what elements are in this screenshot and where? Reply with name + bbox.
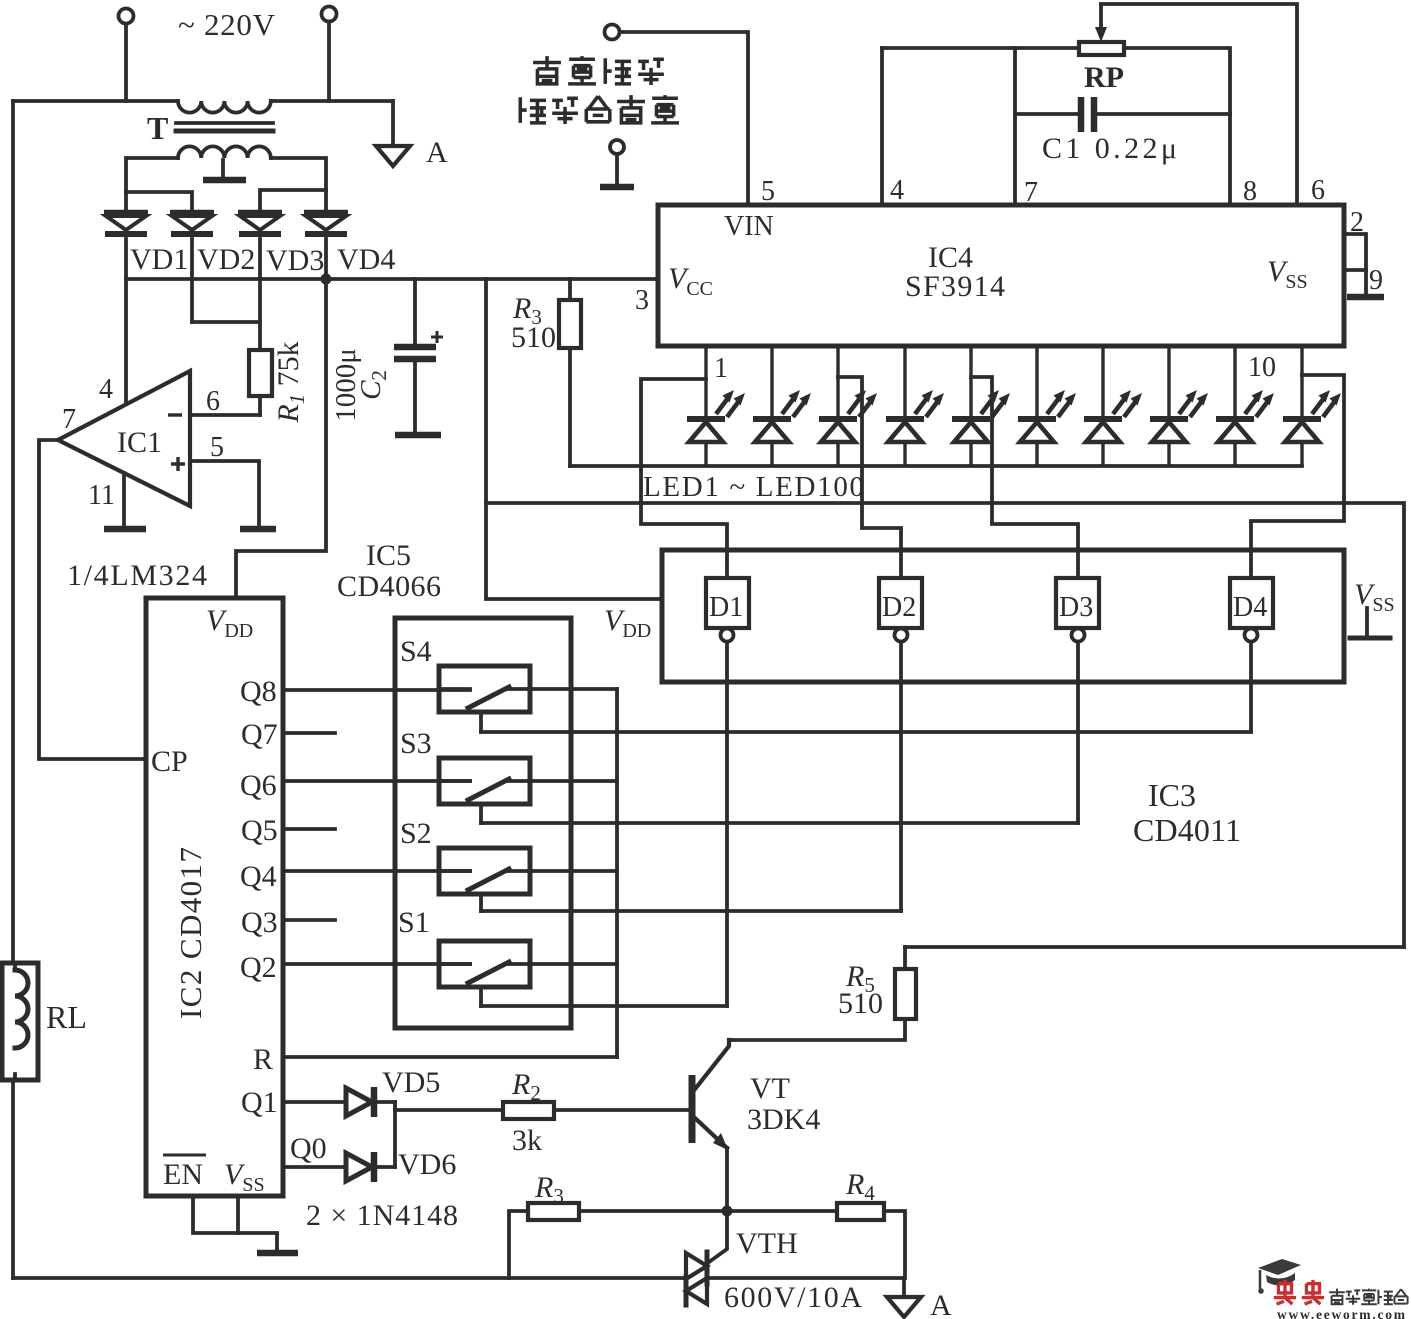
- wire secondary left: [126, 158, 178, 213]
- diode VD6: [346, 1153, 372, 1181]
- wire IC1 output to CP: [39, 440, 146, 759]
- svg-text:D4: D4: [1233, 592, 1267, 623]
- wire left rail lower: [11, 1080, 15, 1278]
- IC2 CD4017 box: [146, 598, 283, 1196]
- inductor RL: [2, 963, 38, 1080]
- svg-text:Q6: Q6: [240, 769, 277, 802]
- svg-text:510: 510: [511, 321, 556, 354]
- gate D1: [706, 578, 749, 628]
- svg-text:1000μ: 1000μ: [330, 348, 362, 422]
- wire LED anode bus: [570, 464, 1302, 468]
- LED LED3: [819, 344, 877, 466]
- pin 4 wire: [880, 48, 884, 205]
- ground pin11: [104, 526, 146, 533]
- svg-text:Q8: Q8: [240, 675, 277, 708]
- wire: [327, 22, 331, 101]
- svg-text:Q7: Q7: [241, 718, 278, 751]
- svg-text:CD4011: CD4011: [1133, 812, 1241, 848]
- svg-text:LED1 ~ LED100: LED1 ~ LED100: [643, 471, 864, 503]
- wire RP to pin 8: [1124, 48, 1230, 205]
- VSS tick: [1365, 608, 1369, 636]
- LED LED5: [952, 344, 1010, 466]
- wire S2 control to D2: [481, 909, 901, 913]
- svg-text:Q4: Q4: [240, 860, 277, 893]
- wire secondary jog to VD2: [126, 192, 192, 213]
- svg-text:SF3914: SF3914: [905, 270, 1005, 303]
- diode VD3: [238, 213, 282, 234]
- diode VD5: [346, 1088, 372, 1116]
- svg-text:2 × 1N4148: 2 × 1N4148: [306, 1199, 458, 1232]
- svg-text:11: 11: [88, 480, 115, 511]
- svg-text:3k: 3k: [512, 1124, 542, 1157]
- capacitor C2: [413, 279, 417, 344]
- wire pin6 to R1: [190, 413, 260, 417]
- LED LED1: [687, 344, 745, 466]
- wire EN VSS to ground: [193, 1196, 277, 1251]
- svg-text:S4: S4: [400, 635, 432, 668]
- svg-text:R1 75k: R1 75k: [272, 341, 309, 423]
- wire pin11 to ground: [122, 473, 126, 527]
- svg-text:A: A: [426, 136, 448, 169]
- diode VD2: [170, 213, 214, 234]
- transformer T secondary coil: [178, 146, 271, 158]
- diode VD4: [304, 213, 348, 234]
- wire secondary right: [271, 158, 326, 213]
- ground C2: [395, 432, 441, 439]
- svg-text:VD5: VD5: [382, 1066, 440, 1099]
- wire gate to triac: [709, 1211, 727, 1262]
- wire wiper to pin 6: [1101, 4, 1297, 205]
- watermark text chongchong: [1274, 1280, 1324, 1304]
- diode VD1: [104, 213, 148, 234]
- pin 7 wire: [1013, 48, 1017, 205]
- wire LED3 tap to D2: [838, 377, 901, 578]
- ground A top: [391, 101, 395, 145]
- LED LED10: [1283, 344, 1341, 466]
- svg-text:Q1: Q1: [241, 1086, 278, 1119]
- plus input: [171, 457, 185, 471]
- resistor R1: [258, 322, 262, 350]
- wire LED10 tap to D4: [1251, 375, 1344, 578]
- wire left rail: [11, 101, 15, 963]
- resistor R3 top: [568, 279, 572, 300]
- LED LED8: [1150, 344, 1208, 466]
- svg-text:6: 6: [1311, 175, 1325, 206]
- wire LED1 tap to D1: [641, 379, 727, 578]
- wire VD2 cathode down: [190, 239, 194, 322]
- wire D3 output: [1076, 642, 1080, 823]
- svg-text:VT: VT: [750, 1072, 790, 1105]
- svg-text:VD3: VD3: [266, 244, 324, 277]
- pin 9 wire: [1344, 268, 1366, 272]
- terminal sensor stub: [610, 140, 624, 154]
- ground A bottom: [902, 1278, 906, 1297]
- wire: [124, 24, 128, 101]
- svg-text:6: 6: [206, 386, 220, 417]
- secondary center tap: [221, 160, 225, 178]
- svg-text:Q0: Q0: [290, 1132, 327, 1165]
- IC5 CD4066 box: [395, 618, 571, 1028]
- svg-text:S3: S3: [400, 727, 432, 760]
- resistor R4: [837, 1203, 884, 1220]
- svg-text:IC2 CD4017: IC2 CD4017: [173, 847, 208, 1019]
- wire primary left: [13, 99, 178, 103]
- minus input: [168, 413, 182, 416]
- capacitor C1: [1015, 112, 1081, 116]
- resistor R3 bottom: [509, 1211, 528, 1278]
- wire primary right: [271, 99, 393, 103]
- svg-text:S1: S1: [398, 906, 430, 939]
- wire D4 output: [1249, 642, 1253, 732]
- svg-text:~ 220V: ~ 220V: [178, 7, 276, 42]
- svg-text:4: 4: [99, 374, 113, 405]
- junction dot: [321, 274, 332, 285]
- LED LED4: [886, 344, 944, 466]
- transformer T core: [176, 121, 273, 125]
- wire jog VD2-VD3 to R1: [192, 320, 260, 324]
- svg-text:D3: D3: [1059, 592, 1093, 623]
- label temperature sensor line2: [520, 95, 679, 124]
- svg-text:5: 5: [210, 432, 224, 463]
- svg-text:S2: S2: [400, 817, 432, 850]
- svg-text:Q2: Q2: [240, 951, 277, 984]
- svg-text:VD2: VD2: [197, 243, 255, 276]
- gate D2: [879, 578, 922, 628]
- pin 2 wire: [1344, 234, 1366, 296]
- watermark text site name: [1329, 1289, 1407, 1305]
- svg-text:R: R: [253, 1043, 273, 1076]
- svg-text:VD1: VD1: [130, 243, 188, 276]
- wire D2 output: [899, 642, 903, 911]
- wire diode join: [393, 1102, 397, 1167]
- wire pin4 to RP: [882, 46, 1079, 50]
- svg-text:Q5: Q5: [241, 814, 278, 847]
- wire to IC4 pin5: [620, 32, 748, 205]
- IC3 CD4011 box: [662, 550, 1344, 682]
- junction dot emitter: [722, 1206, 733, 1217]
- transistor VT: [689, 1075, 696, 1143]
- svg-text:A: A: [930, 1289, 952, 1319]
- RP wiper arrow: [1099, 4, 1103, 29]
- svg-text:IC3: IC3: [1148, 777, 1196, 813]
- ground IC2: [257, 1250, 298, 1257]
- svg-text:T: T: [147, 110, 168, 146]
- svg-text:9: 9: [1369, 265, 1383, 296]
- IC4 SF3914 box: [658, 205, 1344, 346]
- LED LED9: [1216, 344, 1274, 466]
- svg-text:EN: EN: [163, 1158, 203, 1191]
- svg-text:RP: RP: [1084, 61, 1124, 94]
- wire VD4 cathode down: [324, 239, 328, 279]
- svg-text:10: 10: [1248, 352, 1276, 383]
- svg-text:7: 7: [62, 404, 76, 435]
- svg-text:CP: CP: [151, 745, 188, 778]
- svg-text:D1: D1: [709, 592, 743, 623]
- svg-text:D2: D2: [882, 592, 916, 623]
- svg-text:VIN: VIN: [724, 211, 774, 242]
- wire bottom rail right: [707, 1276, 904, 1280]
- wire VCC bus: [126, 277, 658, 281]
- svg-text:3DK4: 3DK4: [747, 1103, 820, 1136]
- terminal AC input left: [119, 9, 134, 24]
- svg-text:VTH: VTH: [736, 1227, 798, 1260]
- svg-text:7: 7: [1024, 177, 1038, 208]
- wire switch common to R: [615, 689, 619, 1057]
- svg-text:RL: RL: [46, 999, 87, 1035]
- terminal temperature sensor signal: [605, 25, 620, 40]
- svg-text:Q3: Q3: [241, 906, 278, 939]
- ground pin5: [240, 526, 276, 533]
- triac VTH: [705, 1252, 710, 1284]
- svg-text:1: 1: [714, 353, 728, 384]
- svg-text:1/4LM324: 1/4LM324: [67, 559, 207, 592]
- svg-text:5: 5: [761, 176, 775, 207]
- wire secondary jog to VD3: [260, 190, 326, 213]
- svg-text:VD4: VD4: [337, 243, 395, 276]
- wire R5 top to rail: [905, 945, 1404, 949]
- svg-text:2: 2: [1350, 207, 1364, 238]
- transformer T primary coil: [178, 101, 271, 113]
- wire VDD IC2: [236, 279, 326, 598]
- potentiometer RP: [1079, 42, 1124, 55]
- watermark logo cap: [1258, 1259, 1301, 1294]
- svg-text:600V/10A: 600V/10A: [724, 1281, 862, 1314]
- wire bottom rail left: [13, 1276, 686, 1280]
- wire LED5 tap to D3: [971, 377, 1078, 578]
- terminal bar pins 2-9: [1347, 294, 1384, 301]
- svg-text:8: 8: [1243, 176, 1257, 207]
- wire S3 control to D3: [481, 821, 1078, 825]
- resistor R2: [395, 1108, 503, 1112]
- wire S4 control to D4: [481, 730, 1251, 734]
- LED LED2: [753, 344, 811, 466]
- label temperature sensor line1: [533, 56, 664, 85]
- svg-text:CD4066: CD4066: [337, 570, 441, 603]
- op-amp IC1: [58, 371, 190, 506]
- wire VD1 cathode down to IC1 pin4: [124, 239, 128, 404]
- svg-text:IC1: IC1: [117, 426, 162, 459]
- wire S1 control to D1: [481, 1004, 727, 1008]
- wire pin5 to ground: [190, 461, 259, 527]
- svg-text:IC5: IC5: [366, 539, 411, 572]
- wire VCC long bus to right: [486, 279, 662, 599]
- wire D1 output: [725, 642, 729, 1006]
- svg-text:4: 4: [890, 175, 904, 206]
- gate D4: [1230, 578, 1273, 628]
- svg-text:VD6: VD6: [398, 1148, 456, 1181]
- LED LED6: [1018, 344, 1076, 466]
- resistor R5: [903, 947, 907, 969]
- LED LED7: [1084, 344, 1142, 466]
- terminal AC input right: [322, 7, 337, 22]
- wire VD3 cathode down: [258, 239, 262, 322]
- svg-text:3: 3: [635, 285, 649, 316]
- svg-text:510: 510: [838, 987, 883, 1020]
- gate D3: [1056, 578, 1099, 628]
